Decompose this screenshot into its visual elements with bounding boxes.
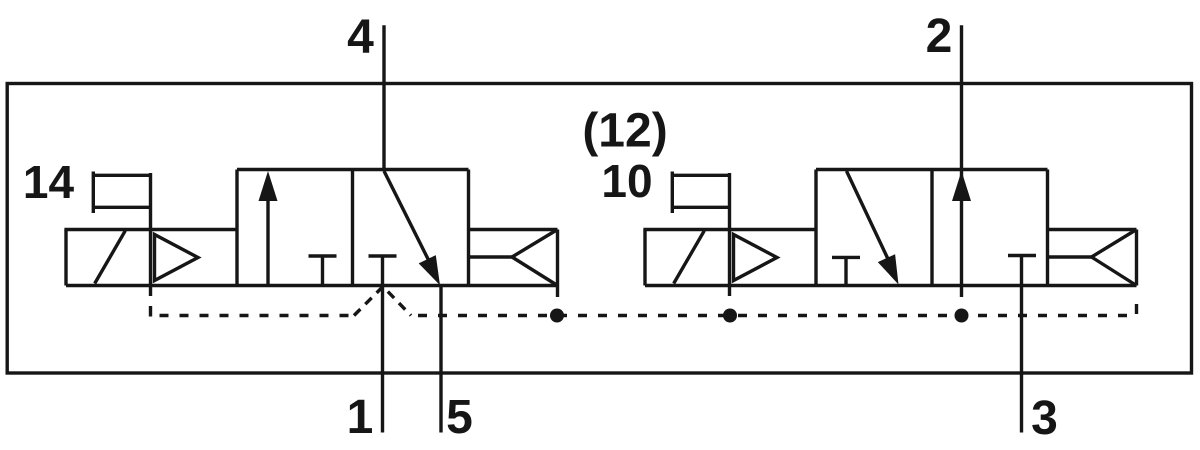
svg-text:14: 14 (23, 156, 75, 208)
svg-text:1: 1 (347, 391, 374, 444)
svg-text:5: 5 (446, 391, 473, 444)
svg-text:4: 4 (347, 11, 374, 64)
svg-text:10: 10 (601, 155, 652, 207)
svg-text:3: 3 (1031, 392, 1058, 445)
svg-text:2: 2 (926, 10, 953, 63)
svg-text:(12): (12) (582, 105, 667, 158)
